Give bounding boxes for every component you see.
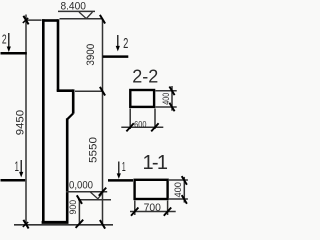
tick right dim bottom [100, 220, 105, 229]
column bottom line [42, 221, 69, 224]
svg-text:600: 600 [134, 119, 146, 130]
thin drawing lines [14, 11, 113, 224]
tick left dim bottom [23, 220, 28, 229]
dimension ticks elevation [23, 15, 106, 229]
svg-text:1: 1 [15, 159, 20, 174]
tick right dim top [100, 15, 105, 24]
svg-text:2-2: 2-2 [132, 66, 158, 86]
svg-text:0,000: 0,000 [69, 179, 93, 191]
section mark 1 left [1, 159, 26, 180]
svg-text:2: 2 [123, 35, 128, 52]
column lower right edge [66, 118, 69, 223]
tick 900 top [77, 195, 82, 204]
corbel extension line [75, 90, 103, 92]
corbel underside slope [67, 113, 73, 119]
level 8.400 shelf line [58, 10, 95, 12]
column elevation outline [42, 19, 74, 223]
corbel top line [57, 89, 73, 92]
svg-text:2: 2 [2, 31, 7, 46]
top-left extension line [26, 19, 42, 21]
section 2-2 ticks [126, 87, 174, 132]
column left edge [42, 19, 45, 223]
dimension texts elevation [15, 0, 100, 214]
section 2-2 dimension lines [121, 86, 176, 129]
section 1-1 dimension lines [130, 177, 188, 215]
section 1-1 rectangle [135, 180, 168, 199]
column upper right edge [57, 19, 60, 91]
right dimension line [102, 19, 104, 225]
svg-text:3900: 3900 [85, 44, 97, 66]
tick 900 bottom [76, 220, 84, 228]
level 0,000 line [78, 199, 111, 201]
svg-text:400: 400 [161, 93, 171, 105]
svg-text:1: 1 [122, 160, 126, 174]
column top line [42, 19, 58, 22]
section 1-1 ticks [131, 176, 187, 216]
svg-text:900: 900 [68, 200, 78, 215]
svg-text:8.400: 8.400 [60, 0, 86, 12]
section mark 1 right [108, 160, 133, 180]
section mark 2 left [1, 31, 27, 53]
svg-text:400: 400 [173, 182, 184, 198]
foundation base line [14, 224, 113, 226]
svg-text:700: 700 [144, 202, 161, 214]
section 2-2 rectangle [130, 90, 154, 107]
level 8.400 line [60, 18, 103, 20]
level 0,000 shelf line [66, 191, 107, 193]
corbel right edge [72, 89, 75, 113]
tick left dim top [23, 16, 28, 25]
tick right dim zero [99, 188, 106, 196]
900 dimension line [78, 200, 80, 225]
svg-text:1-1: 1-1 [142, 152, 168, 174]
level 0,000 V mark [90, 192, 103, 199]
svg-text:5550: 5550 [88, 137, 100, 163]
left dimension line 9450 [25, 15, 27, 225]
tick right dim corbel [100, 87, 105, 96]
level 8.400 V mark [79, 12, 93, 19]
svg-text:9450: 9450 [15, 110, 27, 135]
section mark 2 right [103, 35, 129, 57]
